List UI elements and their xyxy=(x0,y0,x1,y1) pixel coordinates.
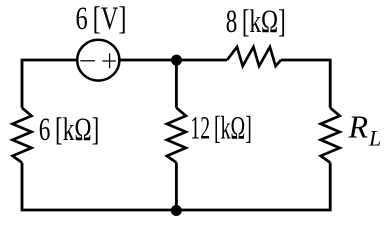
wire: top rail from 8k resistor + right branch top xyxy=(281,60,330,108)
node A junction dot (top) xyxy=(171,55,182,66)
voltage source minus sign xyxy=(80,60,95,62)
voltage source plus sign xyxy=(102,53,115,68)
wire: left branch bottom + bottom rail + right branch bottom xyxy=(22,163,330,210)
resistor RL zigzag (right branch) xyxy=(321,108,340,163)
node B junction dot (bottom) xyxy=(171,205,182,216)
wire: middle branch bottom (below 12k resistor to node B) xyxy=(175,163,178,210)
svg-text:L: L xyxy=(368,126,381,151)
svg-text:6 [V]: 6 [V] xyxy=(76,1,127,37)
svg-text:6 [kΩ]: 6 [kΩ] xyxy=(39,112,100,148)
wire: middle branch top (node A down to 12k resistor) xyxy=(175,60,178,108)
wire: left branch top + top rail to 8k resistor xyxy=(22,60,227,108)
voltage source U1 circle xyxy=(77,40,119,81)
resistor 12k zigzag (middle branch) xyxy=(167,108,186,163)
svg-text:8 [kΩ]: 8 [kΩ] xyxy=(226,4,286,40)
svg-text:R: R xyxy=(348,108,369,144)
resistor 8k zigzag (top) xyxy=(227,47,281,66)
resistor 6k zigzag (left branch) xyxy=(13,108,32,163)
svg-text:12 [kΩ]: 12 [kΩ] xyxy=(190,110,252,146)
